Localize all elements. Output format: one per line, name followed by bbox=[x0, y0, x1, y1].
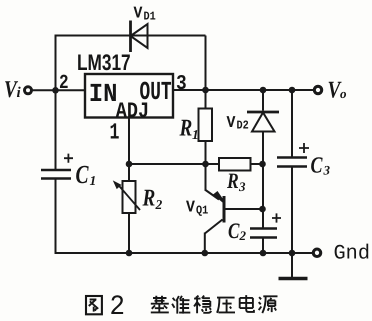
wire R2 bottom lead to ground rail bbox=[128, 213, 130, 254]
wire left input branch vertical (upper part, above C1) bbox=[55, 35, 57, 171]
svg-text:2: 2 bbox=[59, 72, 69, 95]
svg-text:2: 2 bbox=[239, 228, 247, 243]
svg-text:o: o bbox=[340, 86, 347, 101]
wire C3 bottom lead through ground rail to ground symbol bbox=[291, 167, 293, 278]
polarity mark of C1 bbox=[64, 154, 73, 163]
op-amp/IC U1 LM317 body bbox=[85, 74, 173, 118]
svg-text:3: 3 bbox=[238, 179, 246, 194]
svg-text:C: C bbox=[76, 160, 90, 189]
node C3 top junction bbox=[289, 87, 296, 94]
node VD2 top junction bbox=[260, 87, 267, 94]
svg-text:Q1: Q1 bbox=[196, 204, 208, 218]
svg-text:ADJ: ADJ bbox=[116, 99, 149, 124]
wire R1 bottom lead to ADJ node row bbox=[205, 141, 207, 164]
svg-text:LM317: LM317 bbox=[77, 50, 131, 75]
node base junction bbox=[259, 206, 266, 213]
wire top rail from left branch to output branch bbox=[56, 35, 206, 37]
terminal Vi bbox=[25, 87, 32, 94]
caption: 图 2 基准稳压电源 bbox=[86, 292, 278, 321]
ground symbol bar bbox=[279, 277, 308, 280]
wire OUT pin to Vo terminal bbox=[173, 89, 314, 91]
node OUT pin junction bbox=[202, 87, 209, 94]
capacitor C1 plates bbox=[41, 170, 71, 179]
diode VD2 triangle bbox=[252, 113, 275, 132]
wire C2 bottom lead to ground rail bbox=[262, 238, 264, 255]
terminal Vo bbox=[314, 86, 321, 93]
resistor R2 body (potentiometer) bbox=[123, 181, 136, 213]
potentiometer R2 arrow bbox=[117, 184, 140, 211]
terminal Gnd bbox=[313, 249, 320, 256]
caption char zhun (standard) bbox=[172, 296, 190, 314]
wire VQ1 collector diagonal bbox=[205, 220, 223, 234]
svg-text:C: C bbox=[228, 218, 240, 243]
caption char ji (base) bbox=[151, 296, 169, 313]
transistor VQ1 base bar bbox=[223, 196, 226, 223]
wire output branch vertical from top rail to OUT node bbox=[205, 36, 207, 109]
polarity mark of C3 bbox=[299, 143, 309, 153]
wire C3 branch upper lead from Vo line bbox=[291, 90, 293, 158]
node ADJ junction bbox=[126, 161, 133, 168]
wire VQ1 emitter lead vertical from R1/R3 node bbox=[205, 164, 207, 190]
svg-text:IN: IN bbox=[89, 79, 118, 109]
wire Vi input to LM317 IN pin bbox=[32, 89, 86, 91]
wire VQ1 emitter diagonal bbox=[205, 190, 219, 200]
caption char yuan (source) bbox=[259, 296, 278, 313]
capacitor C2 plates bbox=[250, 229, 277, 238]
svg-text:R: R bbox=[142, 186, 156, 212]
wire VQ1 base lead to VD2 branch bbox=[224, 208, 262, 210]
diode VD1 cathode bar bbox=[129, 21, 132, 53]
wire VQ1 collector lead to ground rail bbox=[204, 233, 206, 254]
svg-text:R: R bbox=[226, 168, 239, 193]
node R1 bottom junction bbox=[202, 161, 209, 168]
wire LM317 ADJ pin lead down bbox=[128, 118, 130, 182]
svg-text:2: 2 bbox=[110, 292, 125, 321]
caption char ya (pressure) bbox=[217, 298, 235, 313]
wire R3 right lead to VD2 branch bbox=[251, 163, 264, 165]
caption char dian (electric) bbox=[240, 295, 254, 312]
transistor VQ1 emitter arrowhead (PNP, pointing into base bar) bbox=[213, 191, 223, 203]
resistor R1 body bbox=[199, 109, 213, 142]
caption char tu (figure) bbox=[86, 296, 102, 314]
capacitor C3 plates bbox=[277, 158, 307, 167]
node C2 ground junction bbox=[260, 250, 267, 257]
svg-text:V: V bbox=[186, 198, 195, 217]
node Vi branch junction bbox=[52, 87, 59, 94]
node C3 ground junction bbox=[289, 250, 296, 257]
node emitter ground junction bbox=[202, 250, 209, 257]
svg-text:R: R bbox=[179, 116, 193, 142]
node R2 ground junction bbox=[126, 250, 133, 257]
node junction dots bbox=[52, 87, 295, 257]
wire VD2 branch upper lead bbox=[262, 90, 264, 111]
svg-text:V: V bbox=[227, 113, 236, 132]
svg-text:C: C bbox=[311, 153, 323, 178]
svg-text:V: V bbox=[134, 4, 143, 23]
diode VD1 triangle bbox=[131, 24, 148, 48]
svg-text:1: 1 bbox=[90, 173, 97, 188]
wire ground rail bbox=[56, 252, 314, 254]
resistor R3 body bbox=[219, 158, 251, 171]
svg-text:D2: D2 bbox=[237, 119, 249, 133]
node R3 right junction bbox=[259, 161, 266, 168]
svg-text:D1: D1 bbox=[144, 10, 156, 24]
svg-text:3: 3 bbox=[176, 73, 187, 96]
wire VD2 branch from diode down through R3 node and base node to C2 bbox=[262, 132, 264, 229]
diode VD2 cathode bar bbox=[247, 111, 279, 114]
caption char wen (stable) bbox=[194, 296, 211, 314]
svg-text:Gnd: Gnd bbox=[334, 243, 371, 266]
svg-text:3: 3 bbox=[323, 163, 331, 178]
svg-text:i: i bbox=[17, 85, 22, 101]
svg-text:2: 2 bbox=[155, 197, 163, 212]
wire left input branch vertical (lower part, below C1) bbox=[55, 179, 57, 255]
polarity mark of C2 bbox=[272, 213, 281, 222]
wire ADJ node row horizontal to R3 bbox=[129, 163, 219, 165]
svg-text:1: 1 bbox=[192, 127, 199, 142]
